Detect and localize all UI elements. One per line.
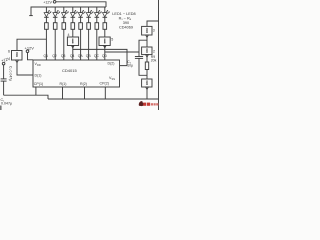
wire Q1 tap to left inverter input — [17, 39, 46, 50]
watermark logo bottom right — [139, 101, 159, 106]
svg-text:+12V: +12V — [25, 46, 35, 51]
wire clock rail B — [48, 98, 159, 100]
svg-text:SS: SS — [112, 77, 116, 81]
op-amp U2c inverter gate4 (clock buffer) — [142, 79, 152, 87]
svg-text:R₁ ~ R₈: R₁ ~ R₈ — [119, 16, 132, 20]
op-amp U2d inverter gate mid1 (on Q4 column) — [67, 37, 78, 46]
wire CP(1) drop — [35, 87, 37, 95]
node mid1 output polarity — [72, 46, 75, 48]
svg-text:QD: QD — [102, 54, 108, 58]
svg-text:Q3: Q3 — [61, 54, 66, 58]
corner artifact bottom left — [0, 106, 2, 111]
svg-text:CP(2): CP(2) — [100, 82, 109, 86]
svg-text:1: 1 — [146, 29, 148, 33]
wire rail end tick — [29, 15, 33, 17]
wire gate4 out to clock rail — [146, 89, 148, 99]
LED LED5 — [78, 10, 85, 17]
svg-text:1: 1 — [146, 50, 148, 54]
wire VDD terminal to IC — [28, 53, 34, 60]
capacitor C2 — [135, 56, 143, 58]
wire mid2 feedback to C2 — [105, 51, 139, 53]
svg-text:R(2): R(2) — [80, 82, 87, 86]
node +12V terminal circle — [53, 1, 56, 4]
LED LED6 — [86, 10, 93, 17]
svg-text:3: 3 — [153, 29, 155, 33]
wire ground rail A — [4, 95, 48, 99]
wire R(1) drop — [62, 87, 64, 99]
svg-text:1: 1 — [104, 40, 106, 44]
wire CP(2) drop — [104, 87, 106, 99]
node gate2 output polarity — [146, 55, 149, 57]
svg-text:10μ: 10μ — [127, 63, 133, 67]
svg-text:CP(1): CP(1) — [34, 82, 43, 86]
svg-text:1: 1 — [72, 40, 74, 44]
wire mid2 output down to QD — [104, 46, 106, 61]
resistor R7 — [95, 23, 99, 30]
wire C2 bottom to node X — [139, 59, 147, 76]
svg-text:CD4069: CD4069 — [119, 26, 133, 30]
node gate4 output polarity — [146, 87, 149, 89]
svg-text:R(1): R(1) — [60, 82, 67, 86]
svg-text:20k: 20k — [151, 58, 157, 62]
resistor R4 — [71, 23, 75, 30]
label Q output pin row — [44, 54, 108, 58]
svg-text:+12V: +12V — [0, 56, 11, 63]
svg-text:5: 5 — [111, 38, 113, 42]
svg-text:D(2): D(2) — [108, 61, 115, 65]
resistor R1 — [45, 23, 49, 30]
op-amp U2b inverter gate2 (oscillator) — [142, 47, 152, 55]
LED LED3 — [62, 10, 69, 17]
svg-text:QC: QC — [94, 54, 100, 58]
resistor R8 — [103, 23, 107, 30]
wire LED anode rail — [31, 7, 106, 16]
label gate "1" symbols — [16, 29, 148, 85]
LED LED1 — [44, 10, 51, 17]
node +12V left terminal — [2, 62, 5, 65]
svg-text:Q4: Q4 — [70, 54, 75, 58]
svg-text:CD4015: CD4015 — [62, 68, 77, 73]
svg-text:2: 2 — [153, 50, 155, 54]
wire R9 to node X — [146, 70, 148, 80]
wire right border — [158, 21, 160, 110]
resistor R9 — [145, 62, 148, 70]
wire cathode to resistor leads — [46, 17, 104, 22]
wire mid1 output down to Q4 — [72, 46, 74, 61]
svg-text:QB: QB — [86, 54, 92, 58]
svg-text:C₁ 0.047μ: C₁ 0.047μ — [9, 66, 13, 81]
svg-text:Q1: Q1 — [44, 54, 49, 58]
LED LED4 — [71, 10, 78, 17]
svg-text:1: 1 — [146, 82, 148, 86]
wire gate3 out to gate2 in — [146, 37, 148, 47]
svg-text:D(1): D(1) — [35, 73, 42, 77]
wire left inverter output to D(1) — [17, 63, 33, 75]
svg-text:QA: QA — [78, 54, 84, 58]
LED LED8 — [103, 10, 110, 17]
wire C1 to rail — [3, 81, 5, 95]
LED LED7 — [95, 10, 102, 17]
resistor R3 — [62, 23, 66, 30]
svg-text:1: 1 — [16, 54, 18, 58]
svg-text:6: 6 — [8, 50, 10, 54]
wire gate2 out to R9 — [146, 57, 148, 62]
node gate left output polarity — [16, 60, 19, 63]
wire R(2) drop — [84, 87, 86, 99]
svg-text:Q2: Q2 — [52, 54, 57, 58]
svg-text:0.047μ: 0.047μ — [1, 101, 12, 105]
svg-text:4: 4 — [68, 33, 70, 37]
resistor R6 — [87, 23, 91, 30]
LED LED2 — [53, 10, 60, 17]
wire mid1 feedback to D(2) — [73, 49, 127, 65]
wire left terminal to C1 — [3, 65, 5, 79]
node +12V VDD terminal — [26, 50, 29, 53]
node mid2 output polarity — [104, 46, 107, 48]
wire oscillator tap to C2 — [139, 40, 147, 56]
IC U1 CD4015 body — [33, 60, 120, 87]
node gate3 output polarity — [146, 35, 149, 37]
svg-text:DD: DD — [37, 63, 41, 67]
resistor R5 — [79, 23, 83, 30]
op-amp U2f inverter gate left (CD4069) — [12, 51, 23, 61]
wire top right feed to gate3 — [147, 0, 159, 26]
wire +12V top feed line — [56, 2, 106, 7]
op-amp U2a inverter gate3 (oscillator) — [142, 26, 152, 35]
capacitor C1 — [1, 78, 7, 80]
op-amp U2e inverter gate mid2 (on QD column) — [99, 37, 110, 46]
wire LED column stubs — [46, 7, 104, 13]
wire columns down to IC — [46, 29, 104, 60]
resistor R2 — [53, 23, 57, 30]
svg-text:+12V: +12V — [43, 1, 52, 5]
